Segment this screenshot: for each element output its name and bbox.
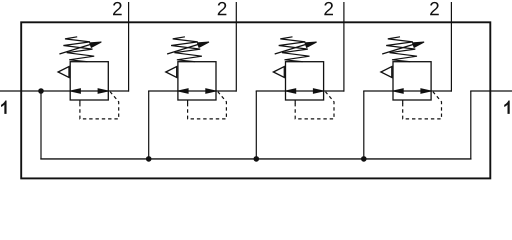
wire regulator 1 output to port 2: [108, 90, 129, 92]
wire regulator 3 output to port 2: [323, 90, 344, 92]
port label 2 (regulator 2): [218, 2, 227, 15]
wire regulator 3 input: [256, 90, 287, 92]
junction dot on bus (regulator 3 feed): [253, 156, 259, 162]
wire port 2.4 riser: [450, 2, 452, 92]
pilot control line R4 (dashed): [403, 92, 442, 119]
wire right riser up from bus: [470, 91, 472, 159]
flow arrowhead right R4: [421, 89, 431, 93]
wire regulator 2 input: [148, 90, 179, 92]
adjustable spring of R1: [63, 37, 94, 62]
adjustment arrow shaft R1: [59, 44, 91, 54]
wire bottom supply bus: [40, 158, 471, 160]
wire regulator 4 input: [363, 90, 394, 92]
pressure regulator R3 body: [286, 62, 324, 100]
adjustment arrowhead R1: [90, 42, 102, 47]
adjustment arrowhead R2: [197, 42, 209, 47]
pilot control line R3 (dashed): [295, 92, 334, 119]
wire port 2.3 riser: [343, 2, 345, 92]
flow arrowhead right R2: [206, 89, 216, 93]
relief vent triangle R1: [58, 67, 69, 78]
adjustment arrow shaft R3: [275, 44, 307, 54]
pressure regulator R1 body: [70, 62, 108, 100]
flow path through regulator R4: [393, 90, 431, 92]
flow path through regulator R2: [178, 90, 216, 92]
pilot control line R2 (dashed): [188, 92, 227, 119]
pilot line stub R2: [187, 100, 189, 103]
flow arrowhead left R3: [286, 89, 296, 93]
pilot line stub R4: [402, 100, 404, 103]
wire regulator 2 output to port 2: [215, 90, 236, 92]
pilot line stub R3: [294, 100, 296, 103]
wire riser from bus to regulator 3 input: [255, 91, 257, 159]
wire riser from node A down to bus: [40, 91, 42, 159]
adjustment arrow shaft R2: [167, 44, 199, 54]
junction dot on bus (regulator 2 feed): [146, 156, 152, 162]
adjustment arrowhead R3: [305, 42, 317, 47]
adjustment arrowhead R4: [413, 42, 425, 47]
relief vent triangle R4: [381, 67, 392, 78]
port label 2 (regulator 1): [113, 2, 122, 15]
wire port 2.2 riser: [235, 2, 237, 92]
flow arrowhead left R2: [178, 89, 188, 93]
junction node A (port-1 tee): [38, 88, 44, 94]
flow path through regulator R1: [70, 90, 108, 92]
wire port 1 inlet (left): [0, 90, 71, 92]
wire regulator 4 output to port 2: [430, 90, 451, 92]
adjustable spring of R3: [279, 37, 310, 62]
relief vent triangle R3: [273, 67, 284, 78]
port label 2 (regulator 4): [430, 2, 439, 15]
pressure regulator R4 body: [393, 62, 431, 100]
wire riser from bus to regulator 2 input: [148, 91, 150, 159]
flow path through regulator R3: [286, 90, 324, 92]
wire port 1 outlet (right): [470, 90, 512, 92]
port label 1 (right): [504, 101, 510, 114]
pressure regulator R2 body: [178, 62, 216, 100]
flow arrowhead right R1: [98, 89, 108, 93]
pilot control line R1 (dashed): [80, 92, 119, 119]
port label 1 (left): [1, 101, 7, 114]
relief vent triangle R2: [166, 67, 177, 78]
port label 2 (regulator 3): [324, 2, 333, 15]
pilot line stub R1: [79, 100, 81, 103]
flow arrowhead left R4: [393, 89, 403, 93]
adjustable spring of R4: [386, 37, 417, 62]
enclosure (manifold block outline): [21, 22, 490, 178]
adjustable spring of R2: [171, 37, 202, 62]
wire riser from bus to regulator 4 input: [363, 91, 365, 159]
wire port 2.1 riser: [128, 2, 130, 92]
flow arrowhead left R1: [70, 89, 80, 93]
junction dot on bus (regulator 4 feed): [361, 156, 367, 162]
adjustment arrow shaft R4: [382, 44, 414, 54]
flow arrowhead right R3: [313, 89, 323, 93]
